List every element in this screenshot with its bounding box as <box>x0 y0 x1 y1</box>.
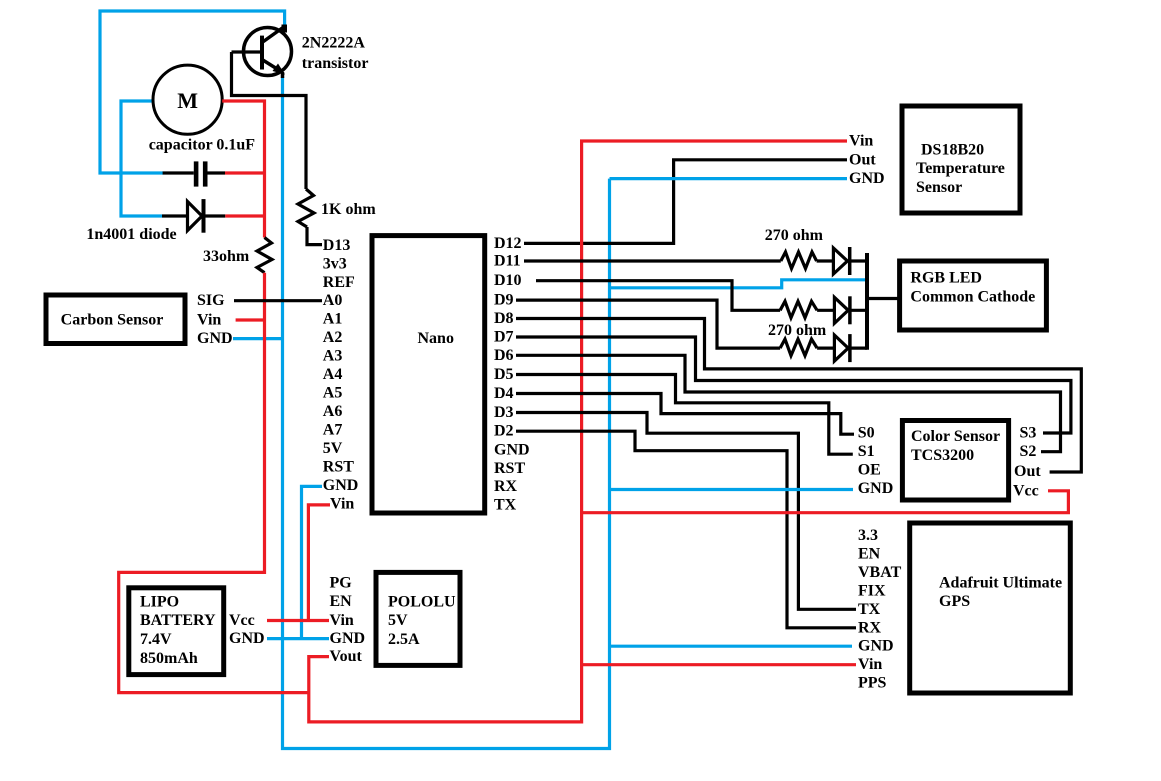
Nano right pin labels <box>494 235 530 514</box>
wire black D9 to LED row 3 <box>516 300 780 348</box>
capacitor C1 0.1uF <box>163 161 225 186</box>
svg-text:EN: EN <box>858 546 881 563</box>
wire blue GPS GND row <box>610 645 853 648</box>
svg-text:A3: A3 <box>323 348 343 365</box>
svg-text:RX: RX <box>858 619 882 636</box>
wire black D11 to LED row 1 <box>524 259 781 262</box>
svg-text:transistor: transistor <box>302 55 369 72</box>
svg-text:D3: D3 <box>494 404 514 421</box>
svg-text:GND: GND <box>849 170 885 187</box>
svg-text:Common Cathode: Common Cathode <box>910 289 1035 306</box>
DS18B20 Temperature Sensor box <box>902 106 1020 213</box>
svg-text:1n4001 diode: 1n4001 diode <box>86 226 176 243</box>
wire red DS18B20 Vin / right power vertical <box>309 141 847 722</box>
svg-text:Vcc: Vcc <box>229 612 255 629</box>
motor M <box>153 65 222 134</box>
svg-text:REF: REF <box>323 274 355 291</box>
wire blue DS18B20 GND row <box>610 177 848 180</box>
svg-text:RST: RST <box>323 458 354 475</box>
svg-text:Out: Out <box>1014 463 1041 480</box>
POLOLU regulator box <box>376 572 460 665</box>
svg-text:Vcc: Vcc <box>1013 482 1039 499</box>
svg-text:Sensor: Sensor <box>916 179 962 196</box>
wire black junction bar to RGB LED box <box>867 297 900 300</box>
resistor 270ohm row2 <box>780 301 817 318</box>
svg-text:GND: GND <box>197 330 233 347</box>
svg-text:D2: D2 <box>494 423 514 440</box>
svg-text:Out: Out <box>849 151 876 168</box>
wire black D10 to LED row 2 <box>536 281 780 311</box>
svg-text:D9: D9 <box>494 292 514 309</box>
Color Sensor TCS3200 box <box>902 421 1008 501</box>
wire black D5 to color sensor S1 <box>516 375 853 455</box>
svg-text:D12: D12 <box>494 235 522 252</box>
RGB LED Common Cathode box <box>900 261 1047 330</box>
wire red GPS Vin row <box>583 663 856 666</box>
svg-text:Adafruit Ultimate: Adafruit Ultimate <box>939 575 1062 592</box>
wire black D12 to DS18B20 Out <box>524 160 847 244</box>
svg-text:5V: 5V <box>388 612 408 629</box>
svg-text:TX: TX <box>858 601 881 618</box>
svg-text:D5: D5 <box>494 366 514 383</box>
svg-text:A2: A2 <box>323 329 343 346</box>
svg-text:A4: A4 <box>323 366 343 383</box>
wire blue carbon sensor GND <box>233 337 284 340</box>
resistor 270ohm row1 <box>781 252 817 269</box>
svg-text:Nano: Nano <box>418 330 454 347</box>
wire black D2 to GPS RX <box>516 431 856 628</box>
wire blue motor-left to diode anode <box>121 101 162 216</box>
svg-text:RX: RX <box>494 478 518 495</box>
svg-text:VBAT: VBAT <box>858 564 902 581</box>
wire blue Nano GND down to pololu GND row <box>302 486 323 638</box>
pololu pin labels PG EN Vin GND Vout <box>330 575 366 666</box>
svg-text:GND: GND <box>323 477 359 494</box>
svg-text:S2: S2 <box>1020 443 1037 460</box>
Nano box <box>372 236 485 513</box>
svg-text:RGB LED: RGB LED <box>910 270 982 287</box>
wire red color sensor Vcc to power vertical <box>582 491 1069 513</box>
svg-text:Vin: Vin <box>197 312 221 329</box>
LIPO BATTERY box <box>129 588 224 675</box>
color sensor right pin labels S3 S2 Out Vcc <box>1013 425 1041 500</box>
svg-text:2N2222A: 2N2222A <box>302 35 366 52</box>
svg-text:PPS: PPS <box>858 675 887 692</box>
resistor 33ohm <box>257 238 272 273</box>
wire red diode cathode <box>225 214 264 217</box>
svg-text:POLOLU: POLOLU <box>388 594 456 611</box>
svg-text:1K ohm: 1K ohm <box>321 201 376 218</box>
svg-text:EN: EN <box>330 593 353 610</box>
svg-text:Vin: Vin <box>849 133 873 150</box>
svg-text:D6: D6 <box>494 347 514 364</box>
wire red capacitor-right <box>225 171 265 174</box>
wire black D4 to color sensor S0 <box>516 394 854 435</box>
svg-text:3.3: 3.3 <box>858 527 878 544</box>
svg-text:33ohm: 33ohm <box>203 248 250 265</box>
wire red motor-right down to 33ohm <box>222 101 264 238</box>
svg-text:Vin: Vin <box>858 656 882 673</box>
svg-text:PG: PG <box>330 575 353 592</box>
svg-text:Vin: Vin <box>330 612 354 629</box>
GPS pin labels <box>858 527 902 692</box>
svg-text:850mAh: 850mAh <box>140 650 198 667</box>
wire black transistor base to 1K resistor <box>232 52 307 189</box>
svg-text:D4: D4 <box>494 385 514 402</box>
wire black D6 to color sensor S2 <box>516 355 1061 451</box>
svg-text:Vout: Vout <box>330 648 363 665</box>
carbon sensor pin labels SIG Vin GND <box>197 292 233 347</box>
svg-text:FIX: FIX <box>858 582 886 599</box>
wire blue collector loop / capacitor-left <box>100 11 285 173</box>
svg-text:Color Sensor: Color Sensor <box>911 428 1000 445</box>
Carbon Sensor box <box>46 295 185 344</box>
wire black 1K to D13 <box>307 227 322 245</box>
svg-text:D11: D11 <box>494 253 521 270</box>
wire black D8 to color sensor Out <box>516 319 1081 473</box>
svg-text:A0: A0 <box>323 292 343 309</box>
wire black D3 to GPS TX <box>516 413 856 610</box>
svg-text:5V: 5V <box>323 440 343 457</box>
wire red carbon Vin <box>236 318 265 321</box>
wire red Nano Vin down to pololu Vin row <box>308 505 330 621</box>
svg-text:2.5A: 2.5A <box>388 631 420 648</box>
svg-text:A5: A5 <box>323 385 343 402</box>
Nano left pin labels <box>323 237 359 512</box>
diode D1 1n4001 <box>162 199 225 233</box>
label 2N2222A transistor <box>302 35 369 73</box>
LED cathode junction bar <box>865 253 869 350</box>
svg-text:S0: S0 <box>858 425 875 442</box>
wire black SIG to A0 <box>234 299 322 302</box>
svg-text:GPS: GPS <box>939 593 970 610</box>
svg-text:RST: RST <box>494 460 525 477</box>
wire black D7 to color sensor S3 <box>516 337 1071 433</box>
svg-text:capacitor 0.1uF: capacitor 0.1uF <box>149 137 256 154</box>
svg-text:SIG: SIG <box>197 292 225 309</box>
wire blue battery GND to pololu GND <box>267 637 329 640</box>
Adafruit Ultimate GPS box <box>910 523 1071 693</box>
svg-text:S1: S1 <box>858 443 875 460</box>
svg-text:GND: GND <box>494 441 530 458</box>
svg-text:OE: OE <box>858 462 881 479</box>
color sensor left pin labels S0 S1 OE GND <box>858 425 894 498</box>
svg-text:GND: GND <box>858 638 894 655</box>
svg-text:DS18B20: DS18B20 <box>921 142 984 159</box>
svg-text:A7: A7 <box>323 422 343 439</box>
svg-text:BATTERY: BATTERY <box>140 612 216 629</box>
wire red battery Vcc to pololu Vin <box>267 619 329 622</box>
svg-text:GND: GND <box>858 480 894 497</box>
wire blue color sensor GND row <box>610 488 854 491</box>
svg-text:GND: GND <box>330 630 366 647</box>
transistor Q1 2N2222A <box>232 25 292 79</box>
svg-text:270 ohm: 270 ohm <box>765 227 824 244</box>
resistor 270ohm row3 <box>780 339 817 356</box>
svg-text:D13: D13 <box>323 237 351 254</box>
svg-text:A1: A1 <box>323 311 343 328</box>
svg-text:TCS3200: TCS3200 <box>911 447 974 464</box>
svg-text:Vin: Vin <box>330 495 354 512</box>
svg-text:GND: GND <box>229 630 265 647</box>
LED green row2 <box>817 296 867 324</box>
wire blue emitter / main ground vertical / bottom run / right ground vertical <box>283 77 610 749</box>
svg-text:TX: TX <box>494 497 517 514</box>
resistor R1 1K <box>298 189 314 227</box>
svg-text:D7: D7 <box>494 329 514 346</box>
wire blue LED common cathode to ground vertical <box>610 280 866 288</box>
svg-text:LIPO: LIPO <box>140 594 179 611</box>
LED red row1 <box>817 247 867 275</box>
svg-text:M: M <box>177 88 198 113</box>
DS18B20 pin labels Vin Out GND <box>849 133 885 188</box>
svg-text:A6: A6 <box>323 403 343 420</box>
svg-text:S3: S3 <box>1020 425 1037 442</box>
svg-text:7.4V: 7.4V <box>140 631 172 648</box>
svg-text:Temperature: Temperature <box>916 160 1005 177</box>
svg-text:3v3: 3v3 <box>323 255 347 272</box>
LED blue row3 <box>817 334 867 362</box>
wire red 33ohm down, battery loop <box>119 273 309 693</box>
svg-text:D8: D8 <box>494 310 514 327</box>
svg-text:Carbon Sensor: Carbon Sensor <box>61 312 164 329</box>
battery pin labels Vcc GND <box>229 612 265 647</box>
svg-text:D10: D10 <box>494 272 522 289</box>
